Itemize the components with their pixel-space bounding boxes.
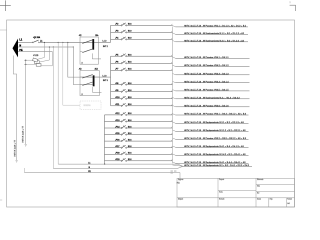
wire N drop to surge box 2 <box>39 47 49 62</box>
contactor K2 actuator bar <box>93 39 95 49</box>
bus group B <box>110 56 112 106</box>
bus group C <box>104 115 106 164</box>
wire drop L1 to INT3 <box>68 42 80 77</box>
wire feeder cable H07V, 3x1,5+T-16 - W Puest <box>176 90 250 92</box>
title block right column line 1 <box>256 184 295 186</box>
contactor K2 blade upper <box>82 40 92 44</box>
title block bottom row divider 1 <box>268 198 270 207</box>
bottom-left margin tick <box>0 199 2 201</box>
title block right column line 2 <box>256 191 295 193</box>
ground symbol earth run 2 <box>25 144 27 146</box>
wire N from supply <box>18 46 73 48</box>
breaker -F3 row <box>111 30 173 33</box>
svg-text:H07V, 3x1,5+T-16 - W Puestos: H07V, 3x1,5+T-16 - W Puestos VS1.1 + D1.… <box>184 24 247 27</box>
breaker -F17 row <box>105 145 173 148</box>
wire exit diagonal for feeder at y=98.8 <box>173 98 176 99</box>
wire exit diagonal for feeder at y=74.8 <box>173 74 176 75</box>
junction N to INT3 <box>73 46 74 47</box>
svg-text:-Q1 25A: -Q1 25A <box>33 36 41 39</box>
svg-text:H07V, 3x1,5+T-16 - W Puestos: H07V, 3x1,5+T-16 - W Puestos VS3.1 + D3.… <box>184 113 247 116</box>
svg-text:Rev: Rev <box>257 192 260 194</box>
vertical wiring trunk <box>172 27 174 164</box>
wire feeder cable H07V, 3x1,5+T-16 - W Equip <box>176 130 249 132</box>
svg-text:INT 3: INT 3 <box>103 80 109 82</box>
svg-text:INT 2: INT 2 <box>103 46 109 48</box>
wire L1 after switch <box>39 41 80 43</box>
contactor U3 box <box>80 71 99 96</box>
wire exit diagonal for feeder at y=82.7 <box>173 81 176 82</box>
corner crop mark top-right <box>290 5 296 11</box>
junction bus C to L1 rail <box>104 164 105 165</box>
wire feeder cable H07V, 3x1,5+T-16 - W Equip <box>176 122 249 124</box>
wire stub lower contact INT2 <box>80 51 83 53</box>
wire exit diagonal for feeder at y=166.3 <box>173 165 184 166</box>
svg-text:H07V, 3x1,5+T-16 - W Equipam: H07V, 3x1,5+T-16 - W Equipamiento B.2.1.… <box>184 129 246 132</box>
svg-text:H07V, 3x1,5+T-16 - W Equipam: H07V, 3x1,5+T-16 - W Equipamiento B.4.1 … <box>184 161 246 164</box>
breaker -F6 row <box>111 61 173 64</box>
breaker -F2 row <box>111 23 173 26</box>
wire exit diagonal for feeder at y=155.3 <box>173 154 176 155</box>
wire exit diagonal for feeder at y=115.0 <box>173 114 176 115</box>
bus group A <box>110 25 112 42</box>
breaker -F8 row <box>111 82 173 85</box>
contactor K3 blade upper <box>82 75 92 79</box>
bottom rail N <box>53 167 177 169</box>
wire feeder cable H07V, 3x1,5+T-16 - W Puest <box>176 82 250 84</box>
svg-text:H07V, 3x1,5+T-16 - W Puestos: H07V, 3x1,5+T-16 - W Puestos VS4.1 + D4.… <box>184 56 229 59</box>
wire feeder cable H07V, 3x1,5+T-16 - W Puest <box>176 26 249 28</box>
wire feeder cable H07V, 3x1,5+T-16 - W Equip <box>176 162 249 164</box>
svg-text:Empresa: Empresa <box>178 179 183 181</box>
wire feeder cable H07V, 3x1,5+T-16 - W Puest <box>176 66 250 68</box>
svg-text:-K2: -K2 <box>79 35 82 37</box>
wire feeder cable H07V, 3x1,5+T-16 - W Ilumi <box>176 41 249 43</box>
wire exit diagonal for feeder at y=163.3 <box>173 162 176 163</box>
wire exit diagonal for feeder at y=66.5 <box>173 65 176 66</box>
title block vertical divider 1 <box>217 178 219 207</box>
revision table marks above title block <box>171 171 177 174</box>
contactor K3 blade lower <box>82 82 92 86</box>
svg-text:H07V, 3x1,5+T-16 - W Puestos: H07V, 3x1,5+T-16 - W Puestos VS3.2 + D3.… <box>184 137 247 140</box>
svg-text:Escala: Escala <box>257 199 261 201</box>
surge arrester box 1 <box>32 58 37 62</box>
svg-text:A4: A4 <box>287 202 289 205</box>
svg-text:Fecha: Fecha <box>219 192 223 194</box>
bottom rail L1 <box>58 163 177 165</box>
title block vertical divider 2 <box>255 178 257 207</box>
wire INT2 output to group A bus <box>98 41 110 43</box>
wire rail N merge diagonal <box>178 166 184 168</box>
wire INT2 lower exit <box>92 53 101 59</box>
wire PE rail left stub <box>24 168 26 173</box>
svg-text:H07V, 3x1,5+T-16 - W Ilumina: H07V, 3x1,5+T-16 - W Iluminamiento B.1.1… <box>184 32 245 35</box>
reserve block dashed box <box>80 101 101 110</box>
breaker -F18 row <box>105 152 173 155</box>
wire feeder cable H07V, 3x1,5+T-16 - W Equip <box>176 154 249 156</box>
svg-text:H07V, 3x1,5+T-16 - W Ilumina: H07V, 3x1,5+T-16 - W Iluminamiento B.4.+… <box>184 96 240 99</box>
svg-text:L1: L1 <box>88 163 90 165</box>
junction L1 drop surge <box>44 42 45 43</box>
wire L1 drop to surge box 1 <box>37 42 44 59</box>
title block mid column line <box>218 190 256 192</box>
svg-text:25A: 25A <box>95 68 99 71</box>
junction N drop surge <box>49 46 50 47</box>
svg-text:L1: L1 <box>19 38 22 41</box>
breaker -F11 row <box>111 103 173 106</box>
junction N to bottom rail <box>53 46 54 47</box>
svg-text:1 3: 1 3 <box>81 94 83 96</box>
junction surge lower <box>25 64 26 65</box>
wire PE corner to surge box 3 <box>40 52 52 66</box>
svg-text:1 3: 1 3 <box>81 62 83 64</box>
breaker -F10 row <box>111 96 173 99</box>
svg-text:H07V, 3x1,5+T-16 - W Puestos: H07V, 3x1,5+T-16 - W Puestos VS4.6 + D4.… <box>184 104 229 107</box>
junction L1 to INT3 <box>67 42 68 43</box>
svg-text:Revisado: Revisado <box>219 199 225 201</box>
breaker -F14 row <box>105 126 173 129</box>
svg-text:H07V-K 1x16 + TT: H07V-K 1x16 + TT <box>14 139 16 156</box>
title block outline <box>177 178 295 207</box>
svg-text:H07V-K 1x16 + TT: H07V-K 1x16 + TT <box>23 125 25 142</box>
breaker -F12 row <box>105 112 173 115</box>
wire feeder cable H07V, 3x1,5+T-16 - W Equip <box>176 146 249 148</box>
contactor U2 box <box>80 37 98 64</box>
junction surge upper <box>25 60 26 61</box>
wire feeder cable H07V, 3x1,5+T-16 - W Puest <box>176 106 250 108</box>
svg-text:H07V, 3x1,5+T-16 - W Ilumina: H07V, 3x1,5+T-16 - W Iluminamiento B.2.1… <box>184 39 245 42</box>
wire feeder cable H07V, 3x1,5+T-16 - W Ilumi <box>176 98 250 100</box>
wire PE rail drop <box>179 173 181 181</box>
surge arrester box 2 <box>34 61 39 64</box>
wire exit diagonal for feeder at y=131.3 <box>173 130 176 131</box>
wire through INT2 upper <box>80 41 98 43</box>
main switch Q1 terminal ticks <box>32 42 39 43</box>
wire earth run 1 from supply <box>13 56 16 161</box>
svg-text:Dibujado: Dibujado <box>178 199 183 201</box>
wire rail L1 merge diagonal <box>178 164 184 166</box>
wire feeder cable H07V, 3x1,5+T-16 - W Puest <box>176 114 249 116</box>
breaker -F9 row <box>111 89 173 92</box>
svg-text:H07V, 3x1,5+T-16 - W Equipam: H07V, 3x1,5+T-16 - W Equipamiento B.2.1 … <box>184 121 244 124</box>
wire drop N to bottom rail <box>52 47 54 168</box>
wire INT3 lower exit <box>93 87 102 93</box>
breaker -F16 row <box>105 139 173 142</box>
wire drop N to INT3 lower <box>73 47 80 85</box>
svg-text:Hoja: Hoja <box>270 199 273 201</box>
svg-text:H07V, 3x1,5+T-16 - W Equipam: H07V, 3x1,5+T-16 - W Equipamiento B.2 + … <box>184 164 250 167</box>
svg-text:H07V, 3x1,5+T-16 - W Puestos: H07V, 3x1,5+T-16 - W Puestos VS4.2 + D4.… <box>184 64 229 67</box>
wire exit diagonal for feeder at y=147.3 <box>173 146 176 147</box>
title block horizontal line full <box>177 197 295 199</box>
wire feeder cable H07V, 3x1,5+T-16 - W Puest <box>176 74 250 76</box>
wire exit diagonal for feeder at y=106.8 <box>173 106 176 107</box>
wire feeder cable H07V, 3x1,5+T-16 - W Ilumi <box>176 33 249 35</box>
svg-text:Referencia: Referencia <box>257 179 264 181</box>
wire earth run 2 from surge <box>25 60 27 144</box>
svg-text:PE1: PE1 <box>177 183 180 185</box>
wire exit diagonal for feeder at y=34.3 <box>173 33 176 34</box>
wire exit diagonal for feeder at y=41.8 <box>173 41 176 42</box>
wire exit diagonal for feeder at y=90.9 <box>173 90 176 91</box>
breaker -F4 row <box>111 37 173 40</box>
svg-text:H07V, 3x1,5+T-16 - W Puestos: H07V, 3x1,5+T-16 - W Puestos VS4.3 + D4.… <box>184 72 229 75</box>
wire drop L1 to bottom rail <box>57 42 59 164</box>
svg-text:H07V, 3x1,5+T-16 - W Puestos: H07V, 3x1,5+T-16 - W Puestos VS4.4 + D4.… <box>184 80 229 83</box>
bottom rail PE <box>25 172 181 174</box>
main switch Q1 blade <box>33 40 39 43</box>
wire through INT3 upper <box>80 76 99 78</box>
svg-text:H07V, 3x1,5+T-16 - W Equipam: H07V, 3x1,5+T-16 - W Equipamiento B.4.1 … <box>184 145 244 148</box>
contactor K2 blade lower <box>82 49 92 53</box>
wire INT3 output to group B bus <box>99 76 110 78</box>
wire through INT3 lower <box>80 84 93 86</box>
wire feeder cable H07V, 3x1,5+T-16 - W Puest <box>176 57 250 59</box>
svg-text:Obra: Obra <box>257 185 260 187</box>
wire feeder cable H07V, 3x1,5+T-16 - W Puest <box>176 138 249 140</box>
surge arrester box 3 <box>36 64 41 67</box>
wire drop to reserve block <box>63 42 80 105</box>
wire feeder cable H07V, 3x1,5+T-16 - W Equip <box>183 165 252 167</box>
breaker -F7 row <box>111 68 173 71</box>
svg-text:H07V, 3x1,5+T-16 - W Equipam: H07V, 3x1,5+T-16 - W Equipamiento B.2.4.… <box>184 153 246 156</box>
incoming supply arrow (filled triangle) <box>13 39 19 58</box>
title block bottom row divider 2 <box>285 198 287 207</box>
registration crosshair top-left <box>0 0 11 11</box>
wire exit diagonal for feeder at y=58.3 <box>173 57 176 58</box>
breaker -F13 row <box>105 119 173 122</box>
svg-text:-K3: -K3 <box>79 69 82 71</box>
wire exit diagonal for feeder at y=26.9 <box>173 26 176 27</box>
wire surge terminal lower <box>24 63 36 65</box>
svg-text:2: 2 <box>290 2 291 4</box>
svg-text:H07V, 3x1,5+T-16 - W Puestos: H07V, 3x1,5+T-16 - W Puestos VS4.5 + D4.… <box>184 88 229 91</box>
contactor K3 actuator bar <box>93 76 95 87</box>
ground symbol earth run 1 <box>15 160 17 162</box>
wire exit diagonal for feeder at y=139.3 <box>173 138 176 139</box>
breaker -F15 row <box>105 132 173 135</box>
svg-text:RESERVA: RESERVA <box>84 104 91 107</box>
left margin tick <box>0 29 7 31</box>
breaker -F5 row <box>111 54 173 57</box>
wire surge terminal upper <box>24 59 33 61</box>
svg-text:-F1 25: -F1 25 <box>33 55 38 57</box>
wire L1 from supply to main switch <box>18 41 33 43</box>
junction L1 to bottom rail <box>58 42 59 43</box>
breaker -F19 row <box>105 158 173 161</box>
junction L1 to reserve <box>62 42 63 43</box>
wire PE from supply <box>18 51 52 53</box>
drawing frame border <box>7 20 295 207</box>
wire exit diagonal for feeder at y=123.3 <box>173 122 176 123</box>
